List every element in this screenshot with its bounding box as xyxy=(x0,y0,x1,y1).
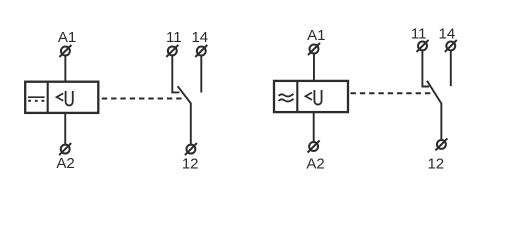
svg-text:14: 14 xyxy=(439,25,456,42)
svg-text:11: 11 xyxy=(411,25,427,42)
svg-text:11: 11 xyxy=(166,29,182,46)
svg-text:12: 12 xyxy=(182,156,199,173)
svg-text:A2: A2 xyxy=(306,156,324,173)
svg-text:14: 14 xyxy=(191,29,208,46)
svg-text:A2: A2 xyxy=(56,155,74,172)
svg-text:A1: A1 xyxy=(58,29,76,46)
svg-text:A1: A1 xyxy=(307,27,325,44)
svg-text:12: 12 xyxy=(427,155,444,172)
